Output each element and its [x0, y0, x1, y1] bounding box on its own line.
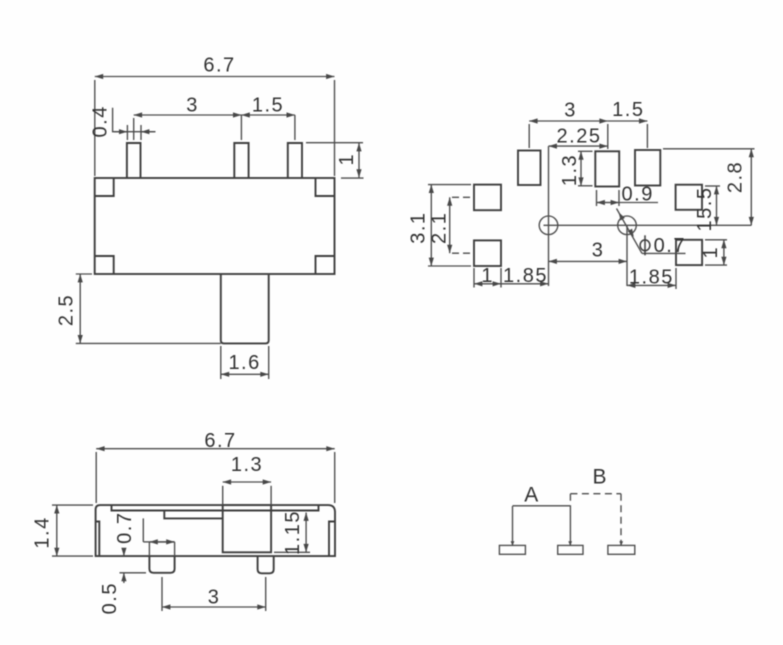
svg-text:1.85: 1.85 — [629, 266, 674, 288]
svg-text:1.5: 1.5 — [252, 95, 284, 117]
svg-text:A: A — [524, 483, 540, 506]
svg-text:2.5: 2.5 — [56, 294, 78, 326]
svg-text:0.7: 0.7 — [654, 235, 686, 257]
svg-text:1.5: 1.5 — [612, 99, 644, 121]
svg-text:2.25: 2.25 — [557, 126, 602, 148]
svg-text:2.8: 2.8 — [725, 161, 747, 193]
svg-text:1.6: 1.6 — [228, 352, 260, 374]
svg-text:1: 1 — [700, 246, 722, 259]
svg-text:B: B — [592, 466, 608, 489]
svg-text:3.1: 3.1 — [407, 211, 429, 243]
svg-text:0.7: 0.7 — [114, 512, 136, 544]
svg-text:2.1: 2.1 — [428, 212, 450, 244]
svg-text:15.5: 15.5 — [694, 187, 716, 232]
svg-text:1.4: 1.4 — [32, 516, 54, 548]
svg-text:1.15: 1.15 — [282, 510, 304, 555]
svg-text:6.7: 6.7 — [203, 55, 235, 77]
svg-text:6.7: 6.7 — [204, 430, 236, 452]
svg-text:0.9: 0.9 — [622, 183, 654, 205]
svg-text:3: 3 — [592, 240, 605, 262]
svg-text:3: 3 — [564, 100, 577, 122]
svg-text:3: 3 — [186, 95, 199, 117]
svg-text:1: 1 — [481, 265, 494, 287]
svg-text:0.5: 0.5 — [99, 582, 121, 614]
svg-text:1.3: 1.3 — [231, 454, 263, 476]
svg-text:1: 1 — [336, 153, 358, 166]
svg-text:3: 3 — [208, 587, 221, 609]
svg-text:1.3: 1.3 — [559, 154, 581, 186]
svg-text:0.4: 0.4 — [90, 105, 112, 137]
svg-text:1.85: 1.85 — [503, 265, 548, 287]
